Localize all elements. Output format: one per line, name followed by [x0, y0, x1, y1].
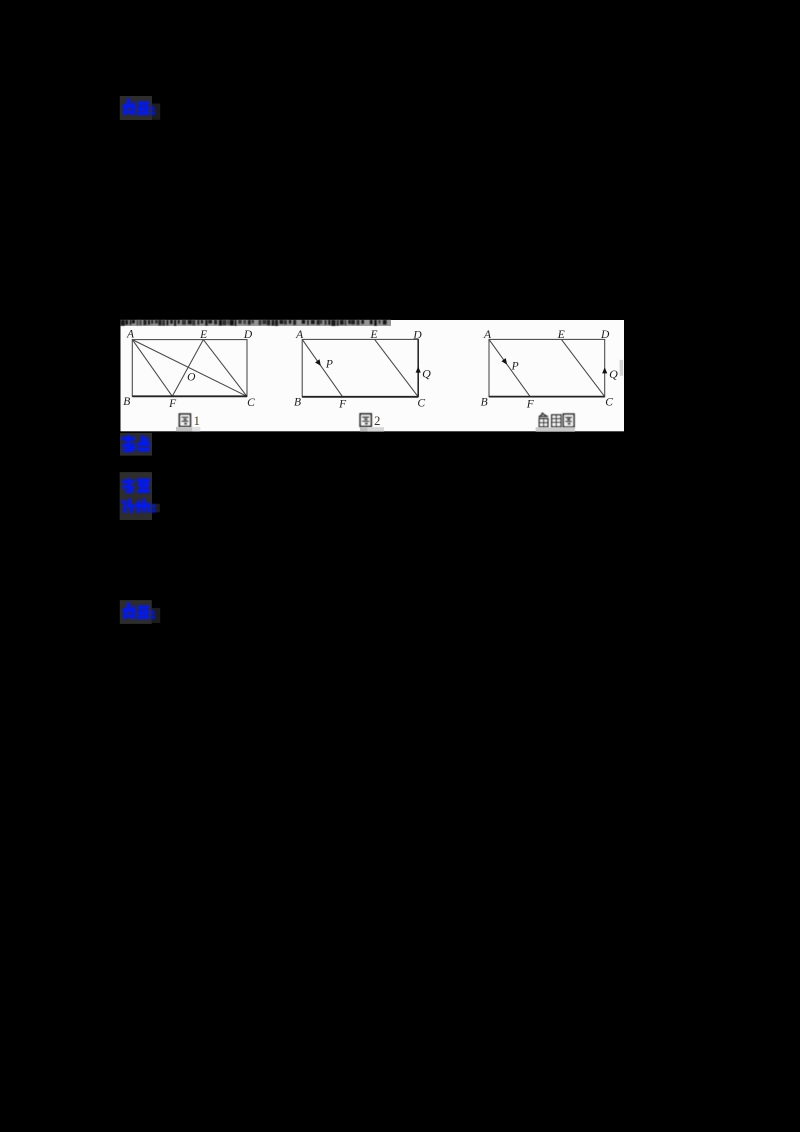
fig3 caption glyph "yong"	[552, 415, 561, 427]
svg-text:E: E	[199, 329, 207, 341]
svg-text:Q: Q	[609, 367, 618, 381]
svg-text:F: F	[168, 398, 177, 410]
fig1 segment E-C	[203, 340, 247, 397]
label box 2 background	[120, 433, 152, 456]
fig1 diagonal A-C	[132, 340, 247, 397]
svg-text:Q: Q	[422, 367, 431, 381]
svg-text:D: D	[412, 330, 422, 342]
scanned figure strip: white paper background	[121, 320, 625, 431]
svg-text:1: 1	[194, 414, 200, 428]
label box 5 background	[120, 600, 152, 624]
fig2 arrowhead Q on CD edge (pointing up)	[416, 367, 421, 373]
svg-text:C: C	[417, 398, 425, 410]
svg-text:A: A	[126, 329, 135, 341]
fig1 segment A-F	[132, 340, 172, 397]
fig2 caption underline smudge	[360, 427, 368, 431]
blue label 3b "fenxi:" blurred glyphs	[121, 499, 156, 514]
fig3 rectangle ABCD	[489, 339, 605, 396]
svg-text:P: P	[325, 359, 333, 371]
svg-text:2: 2	[374, 414, 380, 428]
fig3 caption underline smudge	[536, 427, 575, 431]
fig2 rectangle ABCD	[302, 339, 418, 396]
fig3 arrowhead P on AF	[501, 358, 507, 365]
svg-text:D: D	[600, 329, 610, 341]
blue label 5 "jieda:" blurred glyphs	[123, 603, 155, 620]
fig1 caption underline smudge	[176, 427, 192, 432]
fig3 segment A-F (path of P)	[489, 339, 530, 396]
fig3 caption glyph "tu"	[563, 414, 574, 427]
svg-text:A: A	[483, 329, 492, 341]
fig1 segment E-F	[172, 340, 203, 397]
fig3 caption glyph "bei"	[539, 413, 549, 427]
svg-text:B: B	[123, 396, 130, 408]
fig3 bottom edge (heavier)	[489, 396, 605, 398]
svg-text:C: C	[247, 397, 255, 409]
cut-off glyph bottoms	[121, 320, 387, 326]
fig2 arrowhead P on AF	[315, 359, 321, 366]
label box 5 right extension	[152, 608, 160, 623]
svg-text:A: A	[295, 329, 304, 341]
label box 1 background (dark gray highlight)	[120, 96, 152, 120]
blue label 3a "zhuanti" blurred glyphs	[122, 478, 151, 493]
fig1 caption glyph "tu" (degraded box character)	[179, 414, 190, 426]
svg-text:B: B	[481, 396, 488, 408]
svg-text:B: B	[294, 397, 301, 409]
cut-off text line band at top of strip (gray bg)	[121, 320, 392, 326]
label box 1 right extension	[152, 104, 160, 120]
scan artifact gray bar right of fig3 Q	[620, 360, 624, 376]
fig1 bottom edge (heavier)	[132, 395, 247, 397]
label box 3 row2 right extension	[152, 504, 160, 513]
svg-text:D: D	[243, 329, 253, 341]
svg-text:P: P	[511, 361, 519, 373]
svg-text:C: C	[605, 396, 613, 408]
fig1 rectangle ABCD	[132, 340, 247, 397]
svg-text:F: F	[338, 399, 347, 411]
svg-text:E: E	[557, 329, 565, 341]
fig2 segment E-C	[375, 339, 419, 396]
label box 3 background (two rows)	[120, 472, 152, 520]
fig3 segment E-C	[561, 339, 604, 396]
svg-text:F: F	[526, 399, 535, 411]
blue label 2 "kaodian" blurred glyphs	[121, 435, 150, 452]
fig3 arrowhead Q on CD edge (pointing up)	[602, 367, 607, 373]
fig2 segment A-F (path of P)	[302, 339, 342, 396]
fig2 right edge (heavier)	[417, 339, 419, 396]
fig2 caption glyph "tu"	[360, 414, 371, 426]
svg-text:O: O	[187, 372, 196, 384]
svg-text:E: E	[369, 329, 377, 341]
blue label 1 "jieda:" blurred glyphs	[123, 99, 155, 116]
fig2 bottom edge (heavier)	[302, 396, 418, 398]
